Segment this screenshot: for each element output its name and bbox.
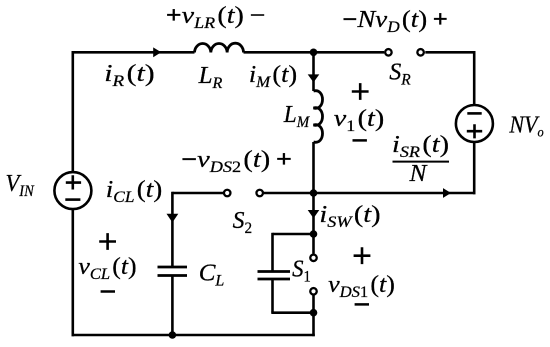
wire left rail upper [72,51,75,172]
label plus of v_DS1 [354,247,371,264]
wire S_1 cap branch top horizontal [273,233,314,236]
inductor L_M [314,91,323,143]
switch S_2 right contact [256,190,263,197]
source V_IN circle [54,172,91,209]
wire C_L to bottom rail [171,276,174,336]
capacitor (parallel with S_1) bottom plate [258,278,291,281]
label minus of v_1 [353,139,367,142]
wire S_1 cap branch left upper vertical [271,233,274,272]
switch S_2 left contact [224,190,231,197]
source NV_o circle [456,105,493,142]
node junction at bottom rail / C_L [169,331,177,339]
inductor L_R [195,43,244,52]
label i_SR(t) numerator [392,131,449,161]
label v_DS1(t) [328,272,395,301]
label L_M [283,102,311,131]
label plus of v_CL [99,233,116,250]
label S_1 [292,256,311,286]
current arrow i_SW [308,210,320,218]
label NV_o [508,111,544,140]
capacitor C_L bottom plate [158,274,188,277]
node junction at S_1 cap bottom [310,309,318,317]
svg-text:iR (t): iR (t) [104,60,154,90]
label S_2 [233,208,252,237]
label C_L [199,260,225,289]
label v_CL(t) [78,254,136,283]
switch S_1 top contact [310,255,317,262]
capacitor C_L top plate [158,266,188,269]
wire S_2 branch corner vertical (down to C_L) [171,192,174,267]
capacitor (parallel with S_1) top plate [258,270,291,273]
wire S_1 bottom circle to bottom rail [312,294,315,336]
label i_CL(t) [106,175,162,205]
current arrow i_SR/N [443,188,451,198]
label i_M(t) [249,62,297,91]
label +v_LR(t)- [166,2,266,32]
wire right rail lower (NV_o bottom to mid wire) [473,142,476,195]
wire L_M branch upper [312,52,315,91]
label v_1(t) [334,105,384,135]
wire top rail from S_R to right rail [425,51,475,54]
node junction at S_1 cap top [310,230,318,238]
wire S_2 branch left segment [172,192,224,195]
label minus of v_DS1 [355,303,369,306]
label N denominator [409,161,429,187]
label i_SW(t) [319,201,380,231]
label -Nv_D(t)+ [342,5,448,35]
node junction at mid wire / L_M [310,189,318,197]
current arrow i_M [308,74,320,82]
wire S_1 cap branch bottom horizontal [271,311,313,314]
label -v_DS2(t)+ [181,146,292,176]
label minus of v_CL [101,290,115,293]
wire top rail right of L_R [244,51,385,54]
wire S_1 cap branch left lower vertical [271,279,274,313]
svg-text:v1 (t): v1 (t) [334,105,384,135]
wire top rail left segment [72,51,195,54]
wire L_M branch lower through junctions to S_1 top circle [312,142,315,254]
wire bottom rail [72,334,315,337]
switch S_R right contact [417,49,424,56]
fraction bar of i_SR(t)/N [393,161,450,163]
source V_IN plus sign [66,175,81,189]
wire right rail upper (to NV_o top) [473,51,476,104]
wire S_2 branch right segment [263,192,314,195]
label i_R(t) [104,60,154,90]
node junction at top rail / L_M [310,49,318,57]
source NV_o plus sign [467,124,482,138]
label V_IN [5,170,34,200]
wire mid-right horizontal (junction to right rail) [314,192,476,195]
current arrow i_R [153,47,161,57]
source V_IN minus sign [65,198,80,201]
label L_R [198,62,223,91]
label S_R [389,60,411,89]
current arrow i_CL [167,214,179,223]
svg-text:+vLR (t) −: +vLR (t) − [166,2,266,32]
wire left rail lower [72,210,75,337]
switch S_R left contact [385,49,392,56]
switch S_1 bottom contact [310,288,317,295]
svg-text:N: N [409,161,429,187]
source NV_o minus sign [467,112,481,115]
svg-text:iM (t): iM (t) [249,62,297,91]
label plus of v_1 [352,83,369,100]
